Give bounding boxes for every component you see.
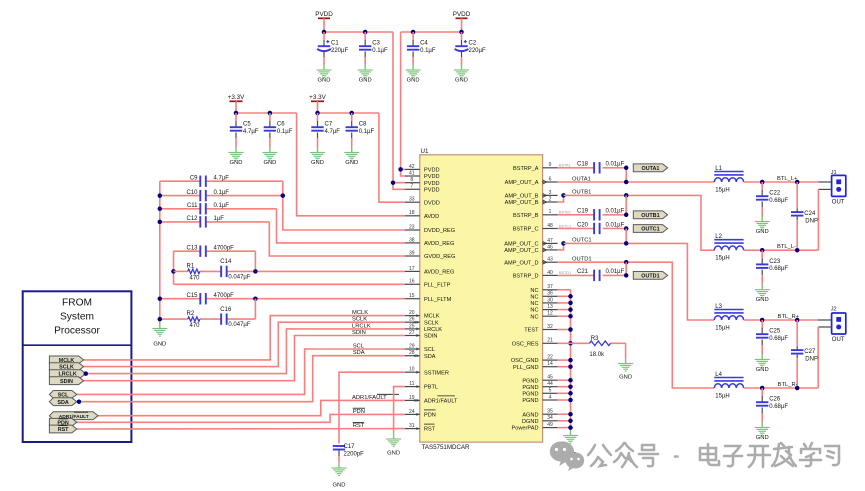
- svg-text:29: 29: [409, 343, 415, 349]
- svg-text:C17: C17: [344, 444, 356, 450]
- inductor L4 15uH: [714, 372, 743, 400]
- pin 38 AVDD_REG: [405, 237, 455, 247]
- svg-text:C7: C7: [325, 122, 333, 128]
- svg-text:SCL: SCL: [424, 347, 435, 353]
- svg-text:47: 47: [547, 238, 553, 244]
- svg-text:ADR1/FAULT: ADR1/FAULT: [424, 399, 458, 405]
- wire NC-GND bus: [558, 290, 571, 430]
- junction C15 bus: [158, 296, 163, 301]
- svg-text:4.7µF: 4.7µF: [243, 129, 259, 135]
- wire AMP_OUT_B pin merge: [558, 195, 564, 202]
- svg-text:C23: C23: [769, 259, 781, 265]
- pin 30 NC: [530, 297, 557, 307]
- svg-text:OUTA1: OUTA1: [642, 166, 660, 172]
- svg-text:4700pF: 4700pF: [214, 246, 235, 252]
- wire C12 row to GVDD_REG pin 39: [160, 222, 405, 256]
- wire SCL signal: [77, 349, 405, 394]
- junction C23 top: [760, 248, 765, 253]
- svg-text:BTL_L-: BTL_L-: [777, 244, 796, 250]
- svg-text:C12: C12: [186, 216, 198, 222]
- svg-text:PGND: PGND: [522, 398, 538, 404]
- pin 19 ADR1/FAULT: [405, 395, 458, 405]
- junction C7 top: [315, 111, 320, 116]
- svg-text:AMP_OUT_A: AMP_OUT_A: [505, 180, 539, 186]
- svg-text:OUTC1: OUTC1: [641, 227, 659, 233]
- capacitor C3 0.1uF: [358, 32, 388, 84]
- wire OUTB1 to L2: [564, 190, 715, 251]
- svg-text:43: 43: [547, 257, 553, 263]
- pin 26 SCLK: [405, 317, 439, 327]
- capacitor C14 0.047uF: [220, 259, 251, 280]
- wire RST signal: [77, 428, 405, 430]
- svg-text:BTL_R-: BTL_R-: [778, 382, 798, 388]
- capacitor C26 0.68uF: [755, 388, 789, 441]
- svg-text:27: 27: [409, 330, 415, 336]
- wire MCLK signal: [84, 316, 405, 360]
- svg-text:L3: L3: [715, 304, 722, 310]
- svg-text:PGND: PGND: [522, 385, 538, 391]
- pin 27 SDIN: [405, 330, 438, 340]
- pin 6 AMP_OUT_A: [505, 176, 558, 186]
- capacitor C20 0.01uF: [558, 222, 627, 234]
- svg-text:4: 4: [549, 394, 552, 400]
- svg-text:SCLK: SCLK: [352, 317, 367, 323]
- svg-text:BSTRP_C: BSTRP_C: [513, 227, 539, 233]
- svg-text:0.047µF: 0.047µF: [228, 322, 250, 328]
- svg-text:32: 32: [547, 324, 553, 330]
- svg-text:BTL_L+: BTL_L+: [777, 176, 798, 182]
- svg-text:MCLK: MCLK: [424, 314, 440, 320]
- svg-text:PDN: PDN: [353, 409, 365, 415]
- svg-text:15µH: 15µH: [715, 393, 729, 399]
- svg-text:AVDD_REG: AVDD_REG: [424, 270, 454, 276]
- svg-text:AMP_OUT_C: AMP_OUT_C: [504, 248, 538, 254]
- label SDIN net: [352, 330, 366, 336]
- svg-text:0.1µF: 0.1µF: [420, 48, 436, 54]
- junction C19 right: [624, 213, 629, 218]
- pin 9 BSTRP_A: [513, 162, 571, 172]
- svg-text:R3: R3: [591, 336, 599, 342]
- svg-text:DVDD_REG: DVDD_REG: [424, 228, 455, 234]
- svg-text:+3.3V: +3.3V: [228, 94, 245, 101]
- wire R1 C14 row to pin 17: [174, 270, 405, 272]
- svg-text:NC: NC: [530, 294, 538, 300]
- svg-text:30: 30: [547, 297, 553, 303]
- svg-text:PGND: PGND: [522, 391, 538, 397]
- svg-text:13: 13: [547, 304, 553, 310]
- flag OUTB1: [633, 211, 667, 219]
- svg-text:0.047µF: 0.047µF: [228, 275, 250, 281]
- junction pins 47-46: [561, 241, 566, 246]
- svg-text:L2: L2: [715, 234, 722, 240]
- svg-text:31: 31: [409, 423, 415, 429]
- flag SDA: [49, 398, 76, 406]
- pin 31 RST: [405, 423, 436, 433]
- svg-text:PVDD: PVDD: [424, 187, 440, 193]
- inductor L2 15uH: [714, 234, 743, 262]
- wire C18 to OUTA1 node: [625, 168, 627, 182]
- svg-text:42: 42: [409, 164, 415, 170]
- svg-text:39: 39: [409, 250, 415, 256]
- svg-text:46: 46: [547, 244, 553, 250]
- pin 45 PGND: [522, 375, 557, 385]
- junction pins 3-2: [561, 193, 566, 198]
- capacitor C11 0.1uF: [187, 203, 229, 214]
- wire OUTD1 node to C21: [625, 262, 627, 275]
- svg-text:0.1µF: 0.1µF: [214, 203, 230, 209]
- svg-text:GND: GND: [455, 78, 468, 84]
- svg-text:C1: C1: [331, 41, 339, 47]
- svg-text:SCL: SCL: [353, 344, 365, 350]
- svg-text:C21: C21: [577, 269, 589, 275]
- svg-text:15µH: 15µH: [715, 325, 729, 331]
- pin 16 PLL_FLTP: [405, 279, 451, 289]
- svg-text:C22: C22: [769, 191, 781, 197]
- svg-text:0.01µF: 0.01µF: [606, 269, 625, 275]
- svg-text:GND: GND: [359, 78, 372, 84]
- capacitor C9 4.7uF: [190, 176, 229, 187]
- capacitor C21 0.01uF: [558, 269, 627, 281]
- wire OSC_RES to R3: [558, 343, 626, 357]
- pin 44 PGND: [522, 381, 557, 391]
- wire C10 row to DVDD_REG pin 23: [160, 196, 405, 230]
- junction C10 right: [281, 193, 286, 198]
- svg-text:LRCLK: LRCLK: [424, 327, 442, 333]
- label SDA net: [353, 350, 365, 356]
- svg-text:C25: C25: [769, 329, 781, 335]
- svg-text:BSTRP_B: BSTRP_B: [513, 213, 539, 219]
- junction C11 bus: [158, 207, 163, 212]
- svg-text:33: 33: [409, 197, 415, 203]
- pin 29 SCL: [405, 343, 435, 353]
- svg-text:GND: GND: [756, 435, 769, 441]
- svg-text:SCLK: SCLK: [424, 320, 439, 326]
- wire SDIN signal: [84, 336, 405, 381]
- FROM System Processor box: [23, 291, 132, 442]
- svg-text:0.01µF: 0.01µF: [606, 162, 625, 168]
- wire SSTIMER to C17: [339, 372, 405, 443]
- svg-text:C3: C3: [372, 41, 380, 47]
- junction C25 top: [760, 318, 765, 323]
- svg-text:C27: C27: [804, 349, 816, 355]
- svg-text:SDA: SDA: [353, 350, 365, 356]
- junction C21 right: [624, 273, 629, 278]
- svg-text:8: 8: [410, 177, 413, 183]
- capacitor C27 DNP: [791, 320, 818, 388]
- svg-text:15µH: 15µH: [715, 256, 729, 262]
- junction R2 bus: [158, 317, 163, 322]
- wire PLL network 1 left node: [174, 251, 405, 284]
- junction C5 top: [234, 111, 239, 116]
- junction OUTC1 node: [624, 241, 629, 246]
- label SCLK net: [352, 317, 367, 323]
- svg-text:GND: GND: [263, 160, 276, 166]
- svg-text:C20: C20: [577, 222, 589, 228]
- svg-text:NC: NC: [530, 301, 538, 307]
- wire OUTB1 node to C19: [625, 195, 627, 214]
- svg-text:+3.3V: +3.3V: [309, 94, 326, 101]
- junction OUTA1 node: [624, 180, 629, 185]
- svg-text:GND: GND: [318, 78, 331, 84]
- svg-text:LRCLK: LRCLK: [352, 323, 371, 329]
- svg-text:0.68µF: 0.68µF: [769, 198, 788, 204]
- svg-text:GND: GND: [230, 160, 243, 166]
- flag RST: [49, 425, 76, 433]
- svg-text:OSC_GND: OSC_GND: [511, 358, 539, 364]
- pin 46 AMP_OUT_C: [504, 244, 557, 254]
- svg-text:44: 44: [547, 381, 553, 387]
- svg-text:0.1µF: 0.1µF: [359, 129, 375, 135]
- junction SDA flag tip: [77, 399, 82, 404]
- svg-text:C6: C6: [277, 122, 285, 128]
- wire 3.3V rail 1: [236, 112, 297, 114]
- svg-text:PGND: PGND: [522, 378, 538, 384]
- wire link pin 8 to pin 7: [393, 183, 405, 190]
- pin 8 PVDD: [405, 177, 440, 187]
- svg-text:45: 45: [547, 375, 553, 381]
- junction C22 top: [760, 180, 765, 185]
- wire R2 C16 row: [160, 299, 256, 319]
- svg-text:AVDD: AVDD: [424, 214, 439, 220]
- svg-text:18.0k: 18.0k: [589, 352, 605, 358]
- svg-text:SDA: SDA: [57, 400, 68, 406]
- wire ADR1/FAULT signal: [98, 400, 405, 415]
- svg-text:21: 21: [547, 338, 553, 344]
- svg-text:SDIN: SDIN: [352, 330, 366, 336]
- junction C24 top: [795, 180, 800, 185]
- svg-text:17: 17: [409, 266, 415, 272]
- wire OUTA1 AMP_OUT_A to L1: [558, 176, 715, 182]
- pin 47 AMP_OUT_C: [504, 238, 557, 248]
- svg-text:12: 12: [547, 311, 553, 317]
- svg-text:10: 10: [409, 367, 415, 373]
- svg-text:C26: C26: [769, 397, 781, 403]
- junction C27 bottom: [795, 386, 800, 391]
- svg-text:NC: NC: [530, 288, 538, 294]
- wire 3.3V rail 2 vertical to DVDD pin 33: [379, 113, 405, 202]
- capacitor C8 0.1uF: [344, 113, 374, 166]
- svg-text:U1: U1: [421, 148, 429, 155]
- svg-text:C8: C8: [359, 122, 367, 128]
- svg-text:PLL_FLTM: PLL_FLTM: [424, 297, 452, 303]
- svg-text:C19: C19: [577, 209, 589, 215]
- svg-text:C14: C14: [220, 259, 232, 265]
- ground R3: [618, 358, 633, 381]
- junction OUTB1 node: [624, 193, 629, 198]
- svg-text:4.7µF: 4.7µF: [325, 129, 341, 135]
- pin 2 AMP_OUT_B: [505, 196, 558, 206]
- connector J1: [831, 170, 846, 206]
- svg-text:SDIN: SDIN: [424, 334, 437, 340]
- svg-text:GND: GND: [619, 375, 632, 381]
- svg-text:0.1µF: 0.1µF: [372, 48, 388, 54]
- pin 36 NC: [530, 291, 557, 301]
- junction C6 top: [268, 111, 273, 116]
- junction C3 top: [363, 30, 368, 35]
- svg-text:RST: RST: [58, 427, 69, 433]
- svg-text:PowerPAD: PowerPAD: [512, 426, 539, 432]
- capacitor C18 0.01uF: [558, 162, 627, 174]
- label SCL net: [353, 344, 365, 350]
- svg-text:0.01µF: 0.01µF: [606, 209, 625, 215]
- svg-text:4700pF: 4700pF: [214, 293, 235, 299]
- svg-text:0.1µF: 0.1µF: [214, 190, 230, 196]
- svg-text:16: 16: [409, 279, 415, 285]
- wire link pin 42 to pin 41: [401, 169, 405, 176]
- inductor L1 15uH: [714, 166, 743, 194]
- svg-text:11: 11: [409, 381, 414, 387]
- connector J2: [831, 307, 846, 344]
- capacitor C6 0.1uF: [262, 113, 292, 166]
- svg-text:DVDD: DVDD: [424, 200, 440, 206]
- svg-text:15: 15: [409, 293, 415, 299]
- pin 13 NC: [530, 304, 557, 314]
- svg-text:C5: C5: [243, 122, 251, 128]
- svg-text:TEST: TEST: [524, 328, 539, 334]
- svg-text:DGND: DGND: [522, 419, 538, 425]
- pin 11 PBTL: [405, 381, 438, 391]
- svg-text:0.1µF: 0.1µF: [277, 129, 293, 135]
- pin 28 SDA: [405, 350, 436, 360]
- junction OUTD1 node: [624, 260, 629, 265]
- svg-text:220µF: 220µF: [469, 48, 486, 54]
- capacitor C22 0.68uF: [755, 182, 789, 235]
- junction pin 42 rail: [398, 167, 403, 172]
- junction network1 left: [171, 269, 176, 274]
- svg-text:41: 41: [409, 170, 415, 176]
- capacitor C2 220uF polarized: [454, 32, 486, 84]
- svg-text:AMP_OUT_C: AMP_OUT_C: [504, 242, 538, 248]
- flag OUTD1: [633, 272, 667, 280]
- svg-text:GND: GND: [756, 229, 769, 235]
- svg-text:DNP: DNP: [805, 219, 818, 225]
- wire PVDD rail 1 vertical to pin 8: [393, 32, 405, 183]
- wire C11 row to AVDD_REG pin 38: [160, 209, 405, 243]
- junction pin 8 rail: [391, 180, 396, 185]
- label RST net: [353, 422, 365, 429]
- svg-text:RST: RST: [424, 427, 436, 433]
- watermark wechat logo: [550, 441, 584, 471]
- wire OUTD1 to L4: [558, 256, 715, 388]
- label PDN net: [353, 408, 365, 415]
- svg-text:L1: L1: [715, 166, 722, 172]
- pin 43 AMP_OUT_D: [504, 257, 557, 267]
- flag PDN: [49, 418, 76, 426]
- svg-text:PVDD: PVDD: [424, 168, 440, 174]
- svg-text:0.68µF: 0.68µF: [769, 404, 788, 410]
- capacitor C25 0.68uF: [755, 320, 789, 373]
- label ADR1/FAULT net: [352, 394, 399, 401]
- svg-text:14: 14: [547, 361, 553, 367]
- pin 5 PGND: [522, 388, 557, 398]
- junction C10 bus: [158, 193, 163, 198]
- svg-text:22: 22: [547, 355, 553, 361]
- svg-text:OUTA1: OUTA1: [572, 176, 591, 182]
- svg-text:15µH: 15µH: [715, 187, 729, 193]
- wire PBTL to ground: [394, 387, 405, 432]
- svg-text:OSC_RES: OSC_RES: [512, 341, 539, 347]
- wire J1 pin1 stub: [818, 181, 831, 183]
- wire 3.3V rail 2: [318, 112, 379, 114]
- svg-text:PVDD: PVDD: [424, 181, 440, 187]
- wire AMP_OUT_C pin merge: [558, 243, 564, 250]
- pin 23 DVDD_REG: [405, 224, 455, 234]
- wire BTL_L+ row: [744, 176, 819, 182]
- svg-text:25: 25: [409, 323, 415, 329]
- svg-text:C24: C24: [804, 211, 816, 217]
- capacitor C19 0.01uF: [558, 209, 627, 221]
- ground PBTL: [386, 432, 401, 457]
- pin 48 BSTRP_C: [513, 223, 572, 233]
- svg-text:GVDD_REG: GVDD_REG: [424, 254, 455, 260]
- svg-text:RST: RST: [353, 423, 365, 429]
- capacitor C10 0.1uF: [186, 190, 229, 201]
- svg-text:23: 23: [409, 224, 415, 230]
- pin 1 BSTRP_B: [513, 209, 571, 219]
- capacitor C1 220uF polarized: [317, 32, 349, 84]
- pin 14 PLL_GND: [513, 361, 558, 371]
- capacitor C16 0.047uF: [220, 307, 251, 328]
- junction C24 bottom: [795, 248, 800, 253]
- wire PDN signal: [77, 414, 405, 422]
- ground left cap bus: [152, 322, 167, 348]
- svg-text:220µF: 220µF: [331, 48, 348, 54]
- svg-text:GND: GND: [387, 451, 400, 457]
- junction C15 right: [253, 296, 258, 301]
- wire BTL_R- row: [744, 382, 819, 388]
- svg-text:35: 35: [547, 409, 553, 415]
- svg-text:AGND: AGND: [522, 412, 538, 418]
- svg-text:PVDD: PVDD: [315, 11, 333, 18]
- svg-text:49: 49: [547, 422, 553, 428]
- svg-text:2: 2: [549, 196, 552, 202]
- pin 4 PGND: [522, 394, 557, 404]
- svg-text:3: 3: [549, 190, 552, 196]
- junction LRCLK flag tip: [84, 371, 89, 376]
- power port PVDD (right): [453, 11, 471, 32]
- junction C20 right: [624, 226, 629, 231]
- junction C18 right: [624, 166, 629, 171]
- pin 32 TEST: [524, 324, 557, 334]
- svg-text:SDA: SDA: [424, 354, 436, 360]
- wire J2 pin1 stub: [818, 319, 832, 321]
- wire C15 row to pin 15: [160, 298, 405, 300]
- svg-text:6: 6: [549, 176, 552, 182]
- pin 25 LRCLK: [405, 323, 443, 333]
- svg-text:36: 36: [547, 291, 553, 297]
- wire C20 to OUTC1 wire: [625, 229, 627, 244]
- pin 41 PVDD: [405, 170, 440, 180]
- svg-text:OUTD1: OUTD1: [572, 256, 592, 262]
- ground IC bus: [563, 430, 578, 458]
- svg-text:BSTRP_A: BSTRP_A: [513, 166, 539, 172]
- svg-text:PVDD: PVDD: [453, 11, 471, 18]
- label MCLK net: [352, 310, 368, 316]
- svg-text:48: 48: [547, 223, 553, 229]
- pin 17 AVDD_REG: [405, 266, 455, 276]
- resistor R3 18.0k: [589, 336, 610, 358]
- svg-text:System: System: [60, 312, 94, 323]
- pin 21 OSC_RES: [512, 338, 558, 348]
- watermark text 公众号·电子开发学习: [588, 443, 839, 467]
- capacitor C4 0.1uF: [406, 32, 436, 84]
- pin 35 AGND: [522, 409, 557, 419]
- svg-text:AMP_OUT_D: AMP_OUT_D: [504, 260, 538, 266]
- svg-text:ADR1/FAULT: ADR1/FAULT: [352, 395, 387, 401]
- junction C2 top: [459, 30, 464, 35]
- ground C17: [332, 468, 347, 489]
- op-amp U1 TAS5751MDCAR body: [420, 148, 543, 451]
